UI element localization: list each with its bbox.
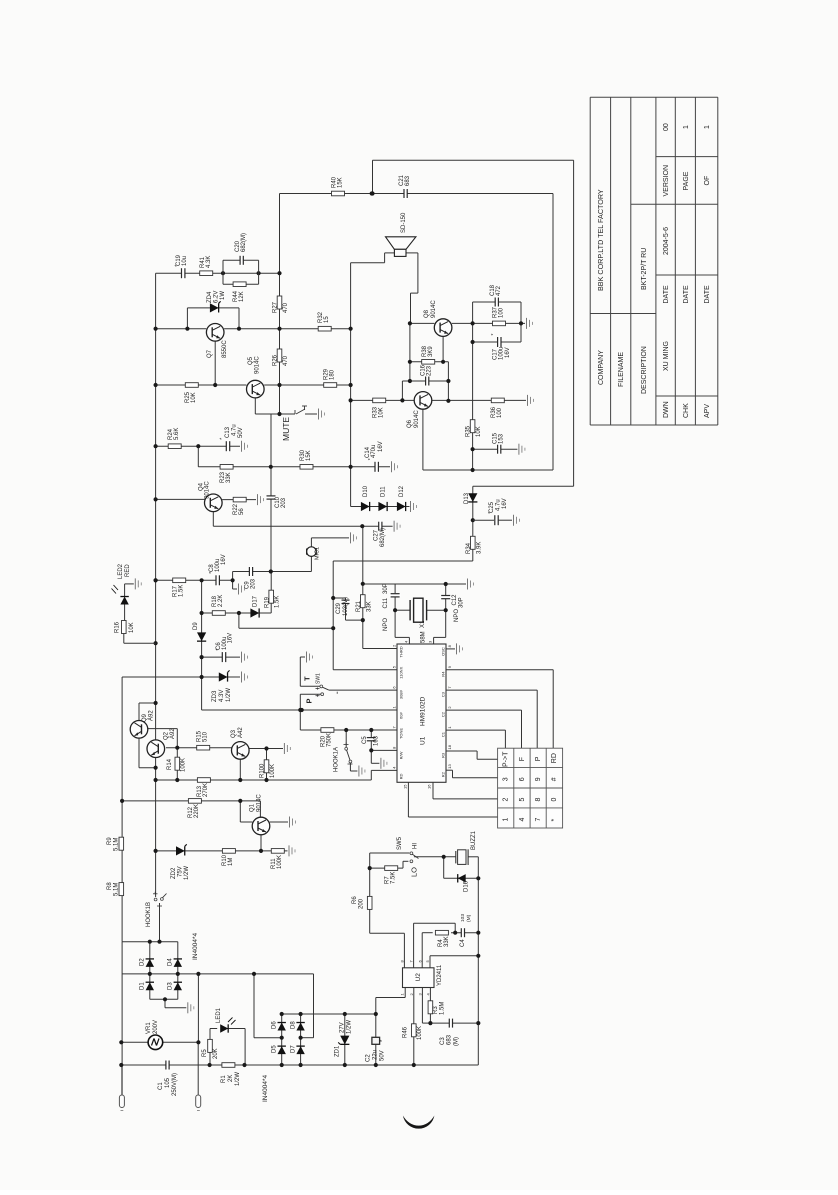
wire C27 line <box>213 525 392 527</box>
wire C14 stub <box>351 466 390 468</box>
wire <box>445 599 447 610</box>
wire Q4 emitter <box>212 512 214 527</box>
resistor R40 <box>332 191 345 196</box>
wire bridge2 right col <box>300 1014 302 1065</box>
crystal X1 <box>409 600 411 620</box>
wire AC pin1 <box>121 1065 123 1095</box>
wire kp row1 line <box>446 750 477 752</box>
svg-text:R8: R8 <box>107 882 113 890</box>
svg-text:LO: LO <box>410 867 419 877</box>
capacitor C8 <box>216 574 219 586</box>
wire C21 line <box>373 193 554 195</box>
svg-text:R13: R13 <box>197 785 203 797</box>
capacitor C10 <box>266 496 277 499</box>
svg-text:R6: R6 <box>352 896 358 904</box>
wire <box>345 598 347 600</box>
wire U2 pin3 <box>421 988 423 1024</box>
svg-text:C1: C1 <box>158 1082 164 1090</box>
wire <box>403 933 405 968</box>
wire <box>395 636 409 638</box>
wire Q9 base <box>148 728 178 730</box>
diode D6 <box>278 1023 286 1031</box>
capacitor C6 <box>222 651 225 663</box>
wire <box>394 598 396 611</box>
wire <box>520 323 522 342</box>
wire mic bottom <box>310 556 312 571</box>
svg-text:C13: C13 <box>225 426 231 438</box>
diode D5 <box>278 1046 286 1054</box>
wire Q5 mute drop <box>254 398 256 414</box>
svg-text:R24: R24 <box>168 428 174 440</box>
wire <box>477 758 498 760</box>
svg-text:MIC1: MIC1 <box>315 547 321 560</box>
junction <box>370 191 374 195</box>
resistor R11 <box>271 849 284 854</box>
ground at Q3 <box>283 743 285 754</box>
wire riser to top line <box>372 160 374 193</box>
resistor R46 <box>412 1024 417 1037</box>
diode D17 <box>250 608 259 617</box>
wire <box>301 1037 314 1039</box>
svg-text:00: 00 <box>663 123 670 131</box>
junction <box>154 444 158 448</box>
wire <box>453 777 498 779</box>
ground at D12 <box>406 506 409 508</box>
transistor Q4 <box>205 494 223 512</box>
svg-text:XU MING: XU MING <box>663 341 670 371</box>
junction <box>200 655 204 659</box>
wire C6 line <box>202 656 240 658</box>
svg-text:105: 105 <box>165 1077 171 1088</box>
zener ZD1 <box>340 1036 349 1045</box>
junction <box>196 1040 200 1044</box>
wire Q1 gnd <box>270 821 288 823</box>
svg-text:BUZZ1: BUZZ1 <box>471 830 477 850</box>
junction <box>442 855 446 859</box>
svg-text:2004-5-6: 2004-5-6 <box>663 227 670 255</box>
wire R38 to C16 <box>409 362 411 381</box>
svg-text:R19: R19 <box>264 596 270 608</box>
wire ZD1 col <box>344 1014 346 1065</box>
microphone MIC1 <box>307 547 317 557</box>
svg-text:Q3: Q3 <box>231 729 237 738</box>
svg-text:D11: D11 <box>381 486 387 497</box>
svg-text:D10: D10 <box>363 485 369 497</box>
wire <box>176 729 178 748</box>
svg-text:2K: 2K <box>228 1075 234 1082</box>
transistor Q9 <box>130 721 148 739</box>
junction <box>221 271 225 275</box>
wire riser x333 <box>332 561 334 670</box>
wire kp col4 line <box>446 669 553 671</box>
svg-text:75V: 75V <box>178 866 184 877</box>
wire <box>414 922 456 924</box>
junction <box>368 866 372 870</box>
wire hook1a lead <box>349 763 351 771</box>
svg-text:R32: R32 <box>318 311 324 323</box>
junction <box>154 766 158 770</box>
svg-text:100K: 100K <box>181 758 187 772</box>
junction <box>119 1063 123 1067</box>
wire C29 bot lead <box>345 604 347 621</box>
svg-text:R46: R46 <box>403 1026 409 1038</box>
wire U2 pin6 <box>421 933 423 968</box>
svg-text:470: 470 <box>283 355 289 366</box>
svg-text:D5: D5 <box>272 1045 278 1053</box>
junction <box>374 1063 378 1067</box>
svg-text:103: 103 <box>374 735 380 746</box>
wire U1 pin8 line <box>371 749 397 751</box>
svg-text:4.3V: 4.3V <box>219 690 225 702</box>
wire kp col2 line <box>446 709 522 711</box>
svg-text:T: T <box>303 676 312 681</box>
keypad matrix <box>498 748 563 828</box>
svg-text:R20: R20 <box>320 735 326 747</box>
svg-text:C14: C14 <box>365 446 371 458</box>
svg-text:R40: R40 <box>331 176 337 188</box>
capacitor C1 <box>166 1060 169 1071</box>
wire <box>402 861 404 868</box>
svg-text:A42: A42 <box>238 727 244 738</box>
svg-text:15K: 15K <box>338 177 344 188</box>
wire R22 line <box>222 499 256 501</box>
svg-text:C2: C2 <box>441 711 446 717</box>
resistor R37 <box>493 321 506 326</box>
junction <box>200 578 204 582</box>
junction <box>349 327 353 331</box>
svg-text:R30: R30 <box>300 449 306 461</box>
junction <box>471 447 475 451</box>
diode D9 <box>197 632 206 641</box>
svg-text:RD: RD <box>551 753 558 763</box>
wire mute line <box>255 413 295 415</box>
svg-text:C17: C17 <box>492 348 498 360</box>
svg-text:103: 103 <box>460 914 466 922</box>
svg-text:C19: C19 <box>176 254 182 266</box>
wire Q9 emitter <box>138 738 140 768</box>
wire C2 col <box>375 1014 377 1065</box>
wire U2 pin4 <box>429 988 431 1002</box>
svg-text:HM9102D: HM9102D <box>420 696 427 726</box>
svg-text:ZD3: ZD3 <box>212 690 218 702</box>
wire U1 pin5 line <box>333 669 397 671</box>
svg-text:R3: R3 <box>433 1006 439 1014</box>
svg-text:LED2: LED2 <box>118 563 124 579</box>
junction <box>471 518 475 522</box>
wire R18 line <box>202 612 239 614</box>
wire <box>394 610 396 637</box>
wire ZD3 line <box>122 676 240 678</box>
junction <box>269 569 273 573</box>
junction <box>280 1012 284 1016</box>
wire <box>164 999 166 1008</box>
svg-text:3: 3 <box>503 777 510 781</box>
junction <box>408 379 412 383</box>
wire inner right line <box>552 194 554 471</box>
wire R34 bottom line <box>333 560 473 562</box>
junction <box>280 1036 284 1040</box>
svg-text:R/W: R/W <box>399 751 404 759</box>
junction <box>175 778 179 782</box>
resistor R22 <box>233 497 246 502</box>
junction <box>185 327 189 331</box>
wire R20 riser <box>299 710 301 730</box>
svg-text:U1: U1 <box>420 736 427 745</box>
junction <box>154 701 158 705</box>
svg-text:50V: 50V <box>238 427 244 438</box>
wire C9 line <box>233 571 271 573</box>
junction <box>200 611 204 615</box>
wire amp rail <box>472 342 474 470</box>
svg-text:10K: 10K <box>476 426 482 437</box>
wire LED1 line <box>227 1028 246 1030</box>
svg-text:CHK: CHK <box>683 403 690 418</box>
svg-text:100K: 100K <box>417 1026 423 1040</box>
ground at C13 <box>241 441 243 452</box>
wire R23 drop <box>197 446 199 467</box>
wire C15 line <box>473 448 518 450</box>
junction <box>369 728 373 732</box>
diode D13 <box>468 493 477 502</box>
wire R24 line <box>156 445 240 447</box>
svg-text:1: 1 <box>503 817 510 821</box>
svg-text:A92: A92 <box>170 728 176 739</box>
ground at MIC1 <box>350 532 352 543</box>
wire U1 pin9 step <box>370 770 372 780</box>
svg-text:PAGE: PAGE <box>683 171 690 190</box>
svg-text:7: 7 <box>535 817 542 821</box>
transistor Q7 <box>206 324 224 342</box>
wire tel rail <box>121 677 123 942</box>
capacitor C19 <box>182 267 185 279</box>
svg-text:TONE: TONE <box>399 728 404 739</box>
wire U1 pin1 line <box>363 648 397 650</box>
zener ZD4 <box>210 303 219 312</box>
svg-text:SW1: SW1 <box>316 673 322 684</box>
wire Q3 right line <box>249 748 283 750</box>
junction <box>148 940 152 944</box>
svg-text:100K: 100K <box>277 855 283 869</box>
svg-text:P: P <box>305 698 314 703</box>
wire <box>520 302 522 323</box>
junction <box>154 497 158 501</box>
junction <box>343 1012 347 1016</box>
wire R12 line <box>122 800 260 802</box>
wire C8 line <box>202 579 233 581</box>
wire C12 drop <box>445 584 447 595</box>
wire ZD4 right drop <box>238 308 240 329</box>
wire <box>139 767 156 769</box>
wire U1 pin4 line <box>202 709 397 711</box>
svg-text:22u: 22u <box>373 1050 379 1060</box>
capacitor C15 <box>498 444 501 455</box>
capacitor C5 <box>366 738 377 741</box>
wire D16 drop <box>443 857 445 879</box>
resistor R23 <box>220 465 233 470</box>
diode D7 <box>296 1046 304 1054</box>
svg-text:C11: C11 <box>383 597 389 608</box>
wire outer top line <box>373 159 574 161</box>
wire Q8 emitter <box>442 336 444 361</box>
resistor R10 <box>222 849 235 854</box>
junction <box>476 954 480 958</box>
wire D16 line <box>444 877 479 879</box>
junction <box>412 1063 416 1067</box>
wire U1 osc gnd <box>446 648 455 650</box>
svg-text:U2: U2 <box>415 973 422 982</box>
ground at C6 <box>241 652 243 663</box>
junction <box>154 578 158 582</box>
svg-text:D2: D2 <box>140 958 146 966</box>
wire speaker right lead <box>406 252 418 254</box>
wire right rail <box>477 857 479 1065</box>
svg-text:R35: R35 <box>466 425 472 437</box>
wire R20 line <box>300 729 397 731</box>
svg-text:R14: R14 <box>167 758 173 770</box>
wire <box>445 610 447 637</box>
wire R12top rail <box>121 942 123 1095</box>
capacitor C11 <box>390 594 401 597</box>
diode D12 <box>397 502 406 511</box>
svg-text:#: # <box>551 777 558 781</box>
svg-text:R37: R37 <box>492 306 498 318</box>
wire <box>408 637 410 645</box>
svg-text:9014C: 9014C <box>431 300 437 318</box>
junction <box>252 972 256 976</box>
junction <box>408 360 412 364</box>
svg-text:472: 472 <box>496 285 502 296</box>
wire <box>452 770 454 778</box>
svg-text:12K: 12K <box>239 291 245 302</box>
svg-text:203: 203 <box>281 497 287 508</box>
svg-text:223: 223 <box>427 365 433 376</box>
resistor R44 <box>222 273 224 284</box>
wire R32 line left <box>156 328 207 330</box>
svg-text:50V: 50V <box>380 1050 386 1061</box>
svg-text:15K: 15K <box>306 450 312 461</box>
junction <box>471 468 475 472</box>
svg-text:D17: D17 <box>253 595 259 607</box>
wire bridge1 right col <box>177 942 179 1000</box>
wire <box>313 974 315 1038</box>
wire <box>476 751 478 759</box>
junction <box>148 972 152 976</box>
junction <box>400 398 404 402</box>
buzzer BUZZ1 <box>458 850 466 865</box>
svg-text:ZD2: ZD2 <box>171 867 177 879</box>
junction <box>269 465 273 469</box>
svg-text:0: 0 <box>551 797 558 801</box>
wire R5 bot <box>209 1053 211 1066</box>
junction <box>154 327 158 331</box>
junction <box>344 728 348 732</box>
wire <box>411 292 418 294</box>
wire xtal line l <box>395 609 410 611</box>
svg-text:D13: D13 <box>464 492 470 504</box>
junction <box>154 778 158 782</box>
wire dc rail <box>197 974 199 1042</box>
wire U2 pin1 wire <box>375 998 377 1015</box>
wire R17 line <box>156 579 202 581</box>
wire speaker left lead <box>385 252 395 254</box>
svg-text:200: 200 <box>358 898 364 909</box>
svg-text:VERSION: VERSION <box>663 165 670 197</box>
wire bridge1 mid line <box>122 973 313 975</box>
svg-text:C6: C6 <box>216 642 222 650</box>
resistor R41 <box>200 271 213 276</box>
svg-text:R4: R4 <box>441 671 446 677</box>
svg-text:C4: C4 <box>460 939 466 947</box>
svg-text:5: 5 <box>519 797 526 801</box>
svg-text:THRD: THRD <box>399 646 404 657</box>
wire <box>413 1037 415 1066</box>
wire <box>473 341 521 343</box>
junction <box>237 611 241 615</box>
wire C5 rail <box>370 730 372 750</box>
svg-text:HOOK1A: HOOK1A <box>334 747 340 772</box>
junction <box>259 849 263 853</box>
resistor R36 <box>491 398 504 403</box>
ground at C25 <box>499 519 513 521</box>
wire <box>454 923 456 933</box>
svg-text:R27: R27 <box>273 301 279 313</box>
svg-text:D8: D8 <box>291 1021 297 1029</box>
junction <box>231 578 235 582</box>
transistor Q1 <box>252 817 270 835</box>
svg-text:250V(M): 250V(M) <box>172 1073 178 1096</box>
wire <box>552 670 554 749</box>
svg-text:Q8: Q8 <box>424 309 430 318</box>
wire <box>371 762 379 764</box>
wire inner bottom line <box>423 469 553 471</box>
svg-text:DATE: DATE <box>704 285 711 303</box>
ground at SW1 <box>306 652 308 663</box>
wire U2 pin8 line <box>370 932 405 934</box>
svg-text:9: 9 <box>535 777 542 781</box>
ground at C15 <box>518 444 520 455</box>
resistor R25 <box>185 383 198 388</box>
svg-text:8550C: 8550C <box>222 340 228 358</box>
svg-text:NPO: NPO <box>383 618 389 631</box>
svg-text:R23: R23 <box>220 471 226 483</box>
junction <box>343 1063 347 1067</box>
svg-text:IN4004*4: IN4004*4 <box>192 933 199 960</box>
wire <box>299 694 301 710</box>
junction <box>163 997 167 1001</box>
junction <box>519 321 523 325</box>
resistor R20 <box>321 728 334 733</box>
junction <box>393 608 397 612</box>
wire <box>404 988 406 998</box>
ground at R36 <box>527 395 529 406</box>
svg-text:9014C: 9014C <box>255 356 261 374</box>
wire bridge1 left col <box>149 942 151 1000</box>
wire C5 gnd stub <box>370 750 372 763</box>
wire R100 rail <box>266 749 268 781</box>
wire kp row4 line <box>407 782 409 817</box>
wire left rail <box>155 273 157 897</box>
wire D10 line <box>351 506 408 508</box>
junction <box>374 1012 378 1016</box>
svg-text:9014C: 9014C <box>414 410 420 428</box>
svg-text:R100: R100 <box>260 763 266 778</box>
svg-text:P: P <box>535 756 542 761</box>
svg-text:4.3K: 4.3K <box>206 256 212 268</box>
svg-text:10K: 10K <box>191 392 197 403</box>
svg-text:Q2: Q2 <box>164 731 170 740</box>
transistor Q6 <box>414 392 432 410</box>
svg-text:16V: 16V <box>378 441 384 452</box>
